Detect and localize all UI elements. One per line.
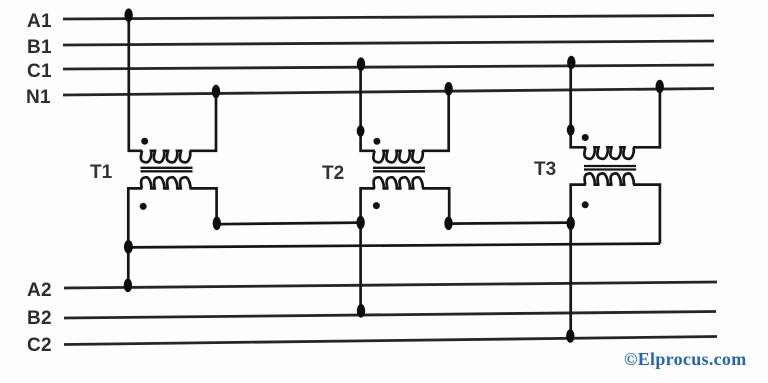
svg-text:C1: C1	[27, 61, 52, 82]
junction dot T3 secondary left	[567, 216, 575, 230]
wire C1 bus	[63, 65, 714, 69]
wire T1 primary left lead	[129, 17, 143, 151]
T1 secondary polarity dot	[140, 203, 147, 210]
svg-text:C2: C2	[27, 335, 52, 356]
wire T3 secondary return to T1 secondary (delta)	[128, 244, 660, 248]
wire N1 bus	[63, 89, 714, 96]
T3 primary lead terminal dot	[567, 124, 575, 135]
wire T2 primary left lead	[361, 66, 375, 151]
transformer T3 secondary winding	[585, 173, 634, 184]
junction dot A2-T1	[124, 279, 132, 293]
svg-text:B2: B2	[27, 308, 52, 329]
wire B2 bus	[64, 312, 716, 319]
wire T1 secondary right lead	[190, 188, 217, 223]
junction dot N1-T2	[444, 82, 452, 96]
wire T3 secondary left lead	[571, 185, 586, 339]
wire T2 secondary right lead	[422, 188, 449, 223]
svg-text:T2: T2	[322, 163, 344, 184]
T3 primary polarity dot	[582, 134, 589, 141]
svg-text:B1: B1	[27, 37, 52, 58]
svg-text:A2: A2	[27, 280, 52, 301]
T3 secondary polarity dot	[582, 201, 589, 208]
svg-text:A1: A1	[27, 11, 52, 32]
transformer T2 primary winding	[373, 151, 422, 163]
junction dot C2-T3	[566, 329, 574, 343]
svg-text:T1: T1	[90, 162, 113, 183]
wire T3 primary left lead	[571, 65, 586, 148]
junction dot C1-T3	[567, 56, 575, 70]
junction dot T1 secondary right	[213, 217, 221, 231]
junction dot A1-T1	[124, 8, 132, 22]
wire T2 secondary to T3 secondary	[449, 223, 571, 224]
wire T3 primary right lead	[633, 87, 660, 147]
wire C2 bus	[64, 337, 717, 345]
wire B1 bus	[63, 41, 714, 45]
T2 primary polarity dot	[373, 138, 380, 145]
junction dot N1-T3	[656, 80, 664, 94]
junction dot T2 secondary right	[444, 217, 452, 231]
wire T1 secondary left lead	[128, 188, 142, 286]
wire T3 secondary right lead	[633, 185, 660, 244]
transformer T1 primary winding	[141, 151, 190, 163]
svg-text:©Elprocus.com: ©Elprocus.com	[624, 349, 747, 369]
T2 primary lead terminal dot	[357, 125, 365, 136]
wire T1 primary right lead	[190, 93, 216, 151]
wire T2 primary right lead	[422, 90, 449, 151]
wire T2 secondary left lead	[361, 188, 375, 316]
wire T1 secondary to T2 secondary	[217, 223, 361, 225]
svg-text:N1: N1	[26, 87, 51, 108]
svg-text:T3: T3	[534, 159, 556, 180]
transformer T1 secondary winding	[141, 177, 190, 188]
transformer T3 core	[584, 165, 636, 167]
junction dot C1-T2	[357, 57, 365, 71]
transformer T3 primary winding	[584, 147, 633, 159]
T2 secondary polarity dot	[373, 202, 380, 209]
wire A2 bus	[64, 282, 717, 288]
junction dot T1 secondary left / delta return	[124, 240, 133, 254]
junction dot N1-T1	[212, 85, 220, 99]
transformer T2 core	[373, 167, 425, 169]
transformer T2 secondary winding	[374, 177, 423, 188]
junction dot T2 secondary left	[356, 216, 364, 230]
junction dot B2-T2	[357, 304, 365, 318]
T1 primary polarity dot	[141, 138, 148, 145]
transformer T1 core	[141, 167, 193, 169]
wire A1 bus	[63, 16, 714, 20]
